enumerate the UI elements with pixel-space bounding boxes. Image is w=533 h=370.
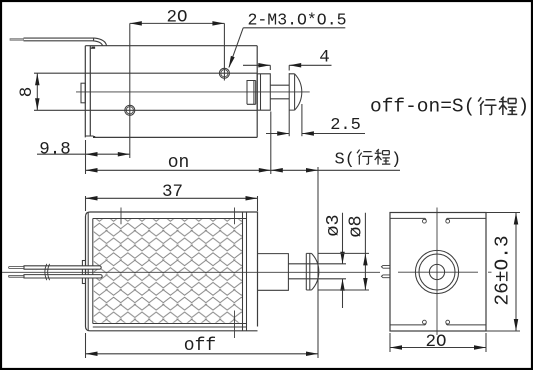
svg-text:2.5: 2.5 xyxy=(330,116,361,135)
washer / flange xyxy=(257,74,270,110)
svg-text:9.8: 9.8 xyxy=(39,140,71,160)
bottom tab hooks xyxy=(423,320,427,324)
shaft (off) xyxy=(288,264,306,279)
upper lead wire xyxy=(24,266,101,269)
mounting hole 1 (M3) xyxy=(125,105,135,115)
end view body xyxy=(390,213,486,332)
frame bottom-left notch (dark) xyxy=(93,136,95,138)
S(行程) text xyxy=(335,151,402,170)
lower lead wire xyxy=(24,275,102,278)
svg-text:37: 37 xyxy=(162,182,183,202)
bottom seam tick xyxy=(234,311,236,339)
frame top-left notch fill xyxy=(92,47,96,49)
coil frame inner left line xyxy=(87,212,89,331)
bore middle circle xyxy=(419,254,455,290)
frame upper fold line through hole 2 xyxy=(34,72,257,74)
svg-text:S(: S( xyxy=(335,151,355,170)
svg-text:2O: 2O xyxy=(425,332,446,352)
end view lead pins xyxy=(381,265,390,268)
bore inner circle xyxy=(429,264,444,279)
upper lead stripped end xyxy=(9,267,24,269)
end view inner bottom line with tabs xyxy=(390,324,486,326)
svg-text:4: 4 xyxy=(319,48,330,68)
svg-text:2-M3.O*O.5: 2-M3.O*O.5 xyxy=(248,11,347,30)
bobbin bottom lines xyxy=(93,324,247,328)
solenoid frame outline xyxy=(85,46,257,138)
plunger shaft (on) xyxy=(270,85,289,99)
coil frame outer xyxy=(86,212,258,331)
svg-text:26±O.3: 26±O.3 xyxy=(492,235,514,305)
lower lead stripped end xyxy=(9,275,24,277)
frame top-left notch xyxy=(90,47,95,49)
head (off) xyxy=(306,253,319,290)
off-on=S(行程) text xyxy=(370,96,529,118)
top seam tick right xyxy=(234,208,236,225)
terminal lead (bent flat wire) xyxy=(24,38,107,46)
dimension 20 (hole spacing) xyxy=(130,21,225,158)
dimension 26±0.3 xyxy=(486,213,520,332)
top seam tick left xyxy=(120,208,122,225)
terminal stripped tip xyxy=(10,39,24,41)
svg-text:): ) xyxy=(391,151,401,170)
行程 glyphs for S dim xyxy=(357,149,390,165)
bobbin top line xyxy=(93,218,247,220)
bobbin right flange xyxy=(243,212,247,331)
end view inner top line with tabs xyxy=(390,217,486,219)
svg-text:off-on=S(: off-on=S( xyxy=(370,96,475,118)
svg-text:ø8: ø8 xyxy=(346,215,367,237)
end view horizontal centerline xyxy=(398,271,492,273)
coil winding (hatch) xyxy=(94,219,242,323)
head left edge extension line xyxy=(288,73,290,136)
end view vertical centerline xyxy=(436,208,438,336)
axis centerline (bottom view) xyxy=(2,271,380,273)
bushing at frame right xyxy=(247,81,256,105)
mounting hole 2 (M3) xyxy=(219,68,229,78)
axis centerline (top view) xyxy=(76,91,310,93)
dimension S (stroke) xyxy=(271,168,318,173)
dimension 8 (hole row offset) xyxy=(35,73,40,110)
svg-text:8: 8 xyxy=(17,87,37,98)
frame bottom-left step xyxy=(85,135,93,137)
wire break mark xyxy=(45,264,50,280)
svg-text:2O: 2O xyxy=(166,8,187,28)
bobbin flange left xyxy=(92,219,94,324)
dimension phi3 (shaft dia) xyxy=(306,213,346,308)
top tab hooks xyxy=(423,219,427,223)
svg-text:): ) xyxy=(518,96,530,118)
plunger protruding (off) xyxy=(258,254,289,291)
svg-text:off: off xyxy=(184,336,216,356)
head right tangent extension line xyxy=(301,104,303,136)
bore outer circle xyxy=(415,250,458,293)
wire terminal tab xyxy=(82,261,85,284)
plunger head (on) xyxy=(289,74,302,110)
行程 glyphs for off-on xyxy=(478,97,517,115)
dimension phi8 (head dia) xyxy=(318,213,370,290)
svg-text:ø3: ø3 xyxy=(323,214,344,236)
left pole tab xyxy=(81,83,85,103)
frame lower fold line through hole 1 xyxy=(34,109,257,111)
